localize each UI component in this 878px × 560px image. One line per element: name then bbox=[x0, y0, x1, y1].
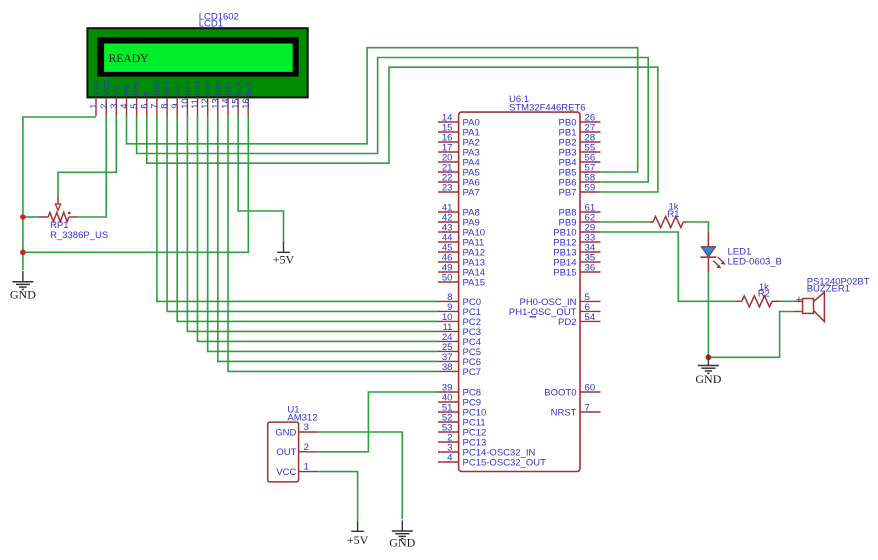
U6.1 pin 22 PA6 bbox=[438, 173, 480, 189]
U6.1 pin 41 PA8 bbox=[438, 203, 480, 219]
svg-text:BLA: BLA bbox=[234, 80, 243, 95]
svg-text:VO: VO bbox=[112, 85, 121, 96]
svg-text:+5V: +5V bbox=[273, 253, 295, 267]
wire LCD pin14 DB7 to PC7 bbox=[228, 116, 438, 371]
LCD pin 16 stub bbox=[247, 97, 249, 116]
wire LCD pin5 R/W to PB6 bbox=[137, 58, 649, 183]
U6.1 pin 58 PB6 bbox=[559, 173, 601, 189]
U6.1 pin 45 PA12 bbox=[438, 243, 485, 259]
svg-text:12: 12 bbox=[200, 98, 210, 108]
U6.1 pin 50 PA15 bbox=[438, 273, 485, 289]
svg-text:R1: R1 bbox=[667, 209, 679, 220]
svg-text:R_3386P_US: R_3386P_US bbox=[50, 230, 108, 241]
svg-text:DB3: DB3 bbox=[183, 81, 192, 96]
svg-text:BOOT0: BOOT0 bbox=[544, 387, 576, 398]
wire U1 VCC to +5V bbox=[318, 472, 357, 522]
svg-text:2: 2 bbox=[99, 104, 109, 109]
wire LCD pin13 DB6 to PC6 bbox=[218, 116, 438, 361]
buzzer BUZZER1 PS1240P02BT bbox=[793, 292, 824, 321]
U6.1 pin 42 PA9 bbox=[438, 213, 480, 229]
U6.1 pin 35 PB14 bbox=[553, 253, 600, 269]
svg-text:DB6: DB6 bbox=[213, 81, 222, 96]
wire LCD pin6 E to PB7 bbox=[147, 67, 658, 192]
IC U1 AM312 body bbox=[268, 422, 299, 482]
LCD pin 14 stub bbox=[227, 97, 229, 116]
U6.1 pin 2 PC13 bbox=[438, 433, 486, 449]
svg-text:59: 59 bbox=[585, 183, 596, 194]
U6.1 pin 36 PB15 bbox=[553, 263, 600, 279]
svg-text:DB0: DB0 bbox=[153, 81, 162, 96]
wire BUZZER1 - to GND bbox=[708, 312, 793, 358]
U6.1 pin 28 PB2 bbox=[559, 133, 601, 149]
LCD pin 4 stub bbox=[126, 97, 128, 116]
U6.1 pin 3 PC14-OSC32_IN bbox=[438, 443, 536, 459]
resistor R1 1k bbox=[649, 217, 688, 228]
U6.1 pin 25 PC5 bbox=[438, 342, 481, 358]
LCD LCD1 body bbox=[87, 28, 307, 97]
svg-text:GND: GND bbox=[275, 427, 296, 438]
IC U6.1 STM32F446RET6 body bbox=[459, 112, 580, 471]
svg-text:OUT: OUT bbox=[276, 447, 296, 458]
U6.1 pin 34 PB13 bbox=[553, 243, 600, 259]
svg-text:PD2: PD2 bbox=[558, 317, 576, 328]
U6.1 pin 38 PC7 bbox=[438, 362, 481, 378]
svg-text:13: 13 bbox=[210, 98, 220, 108]
U6.1 pin 61 PB8 bbox=[559, 203, 601, 219]
U1 pin 1 VCC bbox=[276, 462, 318, 478]
LCD pin 13 stub bbox=[217, 97, 219, 116]
wire R2 to BUZZER1 + bbox=[780, 300, 793, 302]
U6.1 pin 54 PD2 bbox=[558, 312, 600, 328]
U6.1 pin 23 PA7 bbox=[438, 183, 480, 199]
svg-text:PC15-OSC32_OUT: PC15-OSC32_OUT bbox=[463, 457, 547, 468]
svg-text:4: 4 bbox=[447, 453, 453, 464]
U6.1 pin 24 PC4 bbox=[438, 332, 481, 348]
svg-text:4: 4 bbox=[119, 104, 129, 109]
svg-text:6: 6 bbox=[139, 104, 149, 109]
svg-text:1: 1 bbox=[304, 462, 309, 473]
U6.1 pin 40 PC9 bbox=[438, 393, 481, 409]
junction LED/buzzer GND bbox=[706, 354, 712, 360]
svg-text:R2: R2 bbox=[758, 288, 770, 299]
junction GND rail / BLK bbox=[20, 250, 26, 256]
svg-text:60: 60 bbox=[585, 383, 596, 394]
svg-text:5: 5 bbox=[129, 104, 139, 109]
wire LCD pin9 DB2 to PC2 bbox=[177, 116, 438, 321]
LCD screen bbox=[104, 44, 293, 72]
wire LCD pin15 BLA to +5V bbox=[238, 116, 283, 243]
svg-text:READY: READY bbox=[109, 51, 149, 65]
svg-text:16: 16 bbox=[241, 98, 251, 108]
wire PB10 to R2 bbox=[601, 232, 736, 301]
svg-text:PA15: PA15 bbox=[463, 277, 486, 288]
ground U1 GND bbox=[389, 520, 415, 549]
svg-text:11: 11 bbox=[190, 99, 200, 109]
LCD pin 10 stub bbox=[186, 97, 188, 116]
svg-text:BUZZER1: BUZZER1 bbox=[807, 284, 850, 295]
svg-text:14: 14 bbox=[221, 98, 231, 108]
LED LED1 LED-0603_B bbox=[700, 232, 725, 273]
svg-text:RS: RS bbox=[122, 85, 131, 96]
U6.1 pin 60 BOOT0 bbox=[544, 383, 600, 399]
wire LCD pin10 DB3 to PC3 bbox=[187, 116, 438, 331]
U6.1 pin 5 PH0-OSC_IN bbox=[519, 292, 600, 308]
LCD pin 9 stub bbox=[176, 97, 178, 116]
LCD pin 1 stub bbox=[95, 97, 97, 116]
LCD pin 11 stub bbox=[197, 97, 199, 116]
wire LED1 cathode to GND bbox=[707, 272, 709, 357]
svg-text:15: 15 bbox=[231, 98, 241, 108]
U6.1 pin 4 PC15-OSC32_OUT bbox=[438, 453, 546, 469]
svg-text:DB2: DB2 bbox=[173, 81, 182, 96]
svg-text:1: 1 bbox=[89, 104, 99, 109]
U6.1 pin 11 PC3 bbox=[438, 322, 481, 338]
LCD pin 5 stub bbox=[136, 97, 138, 116]
svg-text:BLK: BLK bbox=[244, 81, 253, 95]
svg-text:23: 23 bbox=[442, 183, 453, 194]
U6.1 pin 43 PA10 bbox=[438, 223, 485, 239]
wire LCD pin1 VSS to GND rail bbox=[23, 117, 96, 270]
U6.1 pin 10 PC2 bbox=[438, 312, 481, 328]
svg-text:50: 50 bbox=[442, 273, 453, 284]
LCD pin 12 stub bbox=[207, 97, 209, 116]
svg-text:7: 7 bbox=[150, 104, 160, 109]
U6.1 pin 16 PA2 bbox=[438, 133, 480, 149]
U6.1 pin 29 PB10 bbox=[553, 223, 600, 239]
U6.1 pin 44 PA11 bbox=[438, 233, 484, 249]
LCD pin 3 stub bbox=[115, 97, 117, 116]
svg-text:R/W: R/W bbox=[132, 80, 141, 96]
power +5V U1 VCC bbox=[347, 521, 369, 547]
LCD bezel bbox=[97, 37, 299, 77]
svg-text:PC7: PC7 bbox=[463, 367, 481, 378]
U6.1 pin 46 PA13 bbox=[438, 253, 485, 269]
U6.1 pin 9 PC1 bbox=[438, 302, 481, 318]
svg-text:GND: GND bbox=[695, 372, 721, 386]
wire U1 GND to GND bbox=[318, 432, 402, 519]
wire LCD pin3 VO to RP1 wiper bbox=[58, 116, 116, 197]
U6.1 pin 55 PB3 bbox=[559, 143, 601, 159]
LCD pin 15 stub bbox=[237, 97, 239, 116]
LCD pin 8 stub bbox=[166, 97, 168, 116]
wire LCD pin2 VCC to RP1 right bbox=[78, 116, 107, 217]
resistor R2 1k bbox=[735, 296, 780, 307]
U6.1 pin 8 PC0 bbox=[438, 292, 481, 308]
U6.1 pin 21 PA5 bbox=[438, 163, 480, 179]
svg-text:E: E bbox=[142, 91, 151, 96]
U6.1 pin 6 PH1-OSC_OUT bbox=[509, 302, 601, 318]
svg-text:36: 36 bbox=[585, 263, 596, 274]
svg-text:+5V: +5V bbox=[347, 533, 369, 547]
svg-text:GND: GND bbox=[10, 288, 36, 302]
svg-text:PB7: PB7 bbox=[559, 187, 577, 198]
junction RP1 left bbox=[20, 214, 26, 220]
svg-text:7: 7 bbox=[585, 403, 590, 414]
U6.1 pin 51 PC10 bbox=[438, 403, 486, 419]
U6.1 pin 37 PC6 bbox=[438, 352, 481, 368]
svg-text:VCC: VCC bbox=[102, 79, 111, 96]
svg-text:DB4: DB4 bbox=[193, 81, 202, 96]
U6.1 pin 33 PB12 bbox=[553, 233, 600, 249]
svg-text:8: 8 bbox=[160, 104, 170, 109]
svg-text:DB7: DB7 bbox=[224, 81, 233, 96]
U6.1 pin 39 PC8 bbox=[438, 383, 481, 399]
svg-text:38: 38 bbox=[442, 362, 453, 373]
wire LCD pin4 RS to PB5 bbox=[127, 48, 638, 172]
U6.1 pin 17 PA3 bbox=[438, 143, 480, 159]
U6.1 pin 20 PA4 bbox=[438, 153, 480, 169]
PD2 overline mark bbox=[530, 316, 537, 318]
U6.1 pin 56 PB4 bbox=[559, 153, 601, 169]
svg-text:DB5: DB5 bbox=[203, 81, 212, 96]
ground GND left rail bbox=[10, 271, 36, 302]
svg-text:NRST: NRST bbox=[551, 407, 577, 418]
svg-text:LED-0603_B: LED-0603_B bbox=[728, 256, 782, 267]
LCD pin 6 stub bbox=[146, 97, 148, 116]
wire LCD pin11 DB4 to PC4 bbox=[198, 116, 439, 341]
svg-text:9: 9 bbox=[170, 104, 180, 109]
U6.1 pin 49 PA14 bbox=[438, 263, 485, 279]
LCD pin 2 stub bbox=[105, 97, 107, 116]
LCD pin 7 stub bbox=[156, 97, 158, 116]
U6.1 pin 52 PC11 bbox=[438, 413, 486, 429]
svg-text:PA7: PA7 bbox=[463, 187, 480, 198]
svg-text:VCC: VCC bbox=[276, 467, 296, 478]
svg-text:10: 10 bbox=[180, 98, 190, 108]
U6.1 pin 57 PB5 bbox=[559, 163, 601, 179]
U6.1 pin 27 PB1 bbox=[559, 123, 601, 139]
U6.1 pin 14 PA0 bbox=[438, 113, 480, 129]
ground GND LED/buzzer bbox=[695, 355, 721, 386]
svg-text:+: + bbox=[796, 294, 802, 306]
U6.1 pin 59 PB7 bbox=[559, 183, 601, 199]
svg-text:PB15: PB15 bbox=[553, 267, 576, 278]
wire LCD pin8 DB1 to PC1 bbox=[167, 116, 438, 311]
wire R1 to LED1 anode bbox=[688, 222, 709, 232]
U6.1 pin 53 PC12 bbox=[438, 423, 486, 439]
wire LCD pin16 BLK to GND rail bbox=[23, 116, 248, 252]
wire LCD pin12 DB5 to PC5 bbox=[208, 116, 438, 351]
svg-text:VSS: VSS bbox=[92, 80, 101, 95]
svg-text:DB1: DB1 bbox=[163, 81, 172, 96]
wire U1 OUT to PC8 bbox=[318, 392, 438, 452]
wire PB9 to R1 bbox=[601, 221, 650, 223]
svg-text:3: 3 bbox=[109, 104, 119, 109]
U6.1 pin 26 PB0 bbox=[559, 113, 601, 129]
resistor RP1 R_3386P_US bbox=[38, 197, 77, 222]
svg-text:GND: GND bbox=[389, 536, 415, 550]
U1 pin 3 GND bbox=[275, 422, 318, 438]
U1 pin 2 OUT bbox=[276, 442, 318, 458]
wire GND rail to RP1 left bbox=[23, 216, 38, 218]
svg-text:2: 2 bbox=[304, 442, 309, 453]
power +5V LCD backlight bbox=[273, 242, 295, 266]
svg-text:3: 3 bbox=[304, 422, 309, 433]
U6.1 pin 62 PB9 bbox=[559, 213, 601, 229]
U6.1 pin 15 PA1 bbox=[438, 123, 480, 139]
U6.1 pin 7 NRST bbox=[551, 403, 601, 419]
wire LCD pin7 DB0 to PC0 bbox=[157, 116, 438, 301]
svg-text:54: 54 bbox=[585, 312, 596, 323]
